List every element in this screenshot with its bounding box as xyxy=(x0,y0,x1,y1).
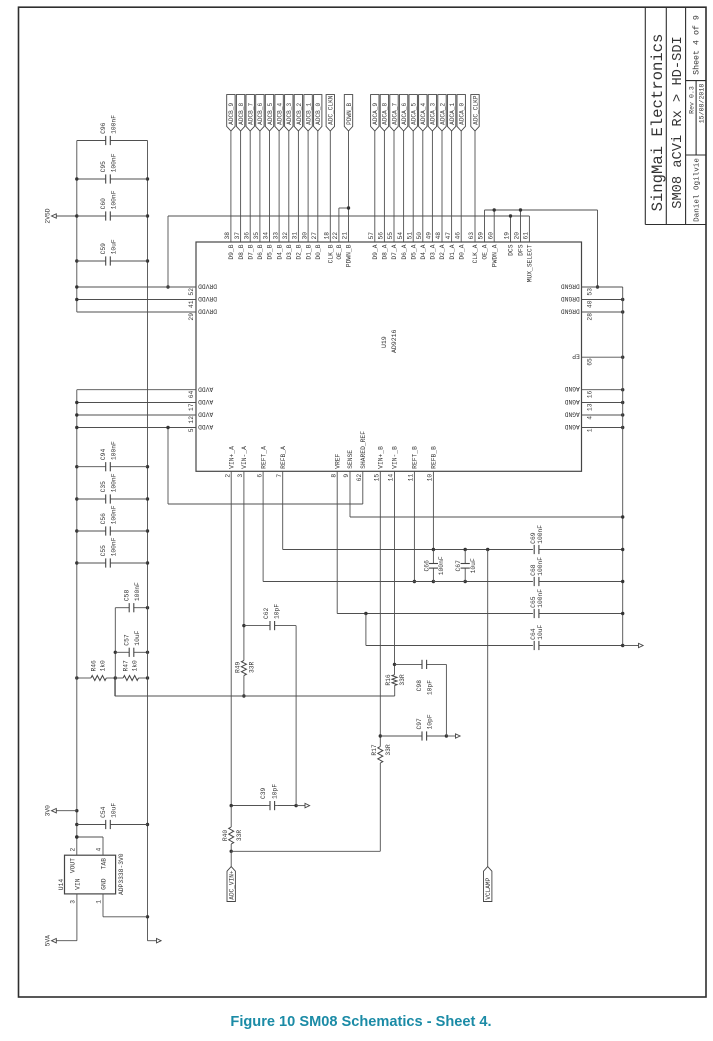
svg-text:Figure 10 SM08 Schematics - Sh: Figure 10 SM08 Schematics - Sheet 4. xyxy=(230,1014,491,1030)
svg-text:ADCA_1: ADCA_1 xyxy=(449,103,456,125)
net flag ADCB_5 xyxy=(265,95,273,131)
svg-text:59: 59 xyxy=(478,232,485,240)
junction C64 rail xyxy=(621,644,624,647)
capacitor C58 100nF xyxy=(115,607,129,609)
svg-text:VIN+_B: VIN+_B xyxy=(378,446,385,469)
svg-text:C94: C94 xyxy=(100,449,107,461)
junction DRVDD 41 xyxy=(75,298,78,301)
wire OE_A group to DRGND xyxy=(485,209,598,211)
junction VREF rail xyxy=(621,612,624,615)
svg-text:13: 13 xyxy=(586,403,593,411)
svg-text:34: 34 xyxy=(263,232,270,240)
svg-text:61: 61 xyxy=(523,232,530,240)
svg-text:ADCB_7: ADCB_7 xyxy=(248,103,255,125)
net flag ADC_CLKP xyxy=(471,95,479,131)
junction AVDD rail xyxy=(75,497,78,500)
net flag ADCB_8 xyxy=(236,95,244,131)
svg-text:ADC_VIN+: ADC_VIN+ xyxy=(229,870,236,900)
net flag PDWN_B xyxy=(344,95,352,131)
net flag ADCB_0 xyxy=(314,95,322,131)
svg-text:15/08/2018: 15/08/2018 xyxy=(699,84,706,124)
pin 40 DRGND xyxy=(582,299,623,301)
pin 61 MUX_SELECT xyxy=(528,216,530,242)
junction ground rail xyxy=(146,823,149,826)
junction AVDD rail xyxy=(75,426,78,429)
junction R49 bias line xyxy=(242,694,245,697)
svg-text:100nF: 100nF xyxy=(111,153,118,172)
pin 12 AVDD xyxy=(77,414,196,416)
svg-text:DRGND: DRGND xyxy=(561,295,580,302)
svg-text:D3_B: D3_B xyxy=(286,244,293,259)
svg-text:22: 22 xyxy=(332,232,339,240)
svg-text:53: 53 xyxy=(586,288,593,296)
junction AVDD rail xyxy=(75,413,78,416)
pin 59 OE_A xyxy=(484,210,486,242)
junction 2V5D rail xyxy=(75,214,78,217)
capacitor C94 100nF xyxy=(77,466,106,468)
svg-text:D6_A: D6_A xyxy=(401,244,408,259)
svg-text:100nF: 100nF xyxy=(111,190,118,209)
pin 47 D1_A xyxy=(451,131,453,242)
svg-text:VIN: VIN xyxy=(75,878,82,890)
pin 3 VIN-_A wire xyxy=(243,471,245,625)
net flag ADCA_3 xyxy=(428,95,436,131)
junction C39 bottom xyxy=(294,804,297,807)
svg-text:R40: R40 xyxy=(222,830,229,842)
svg-text:ADCA_5: ADCA_5 xyxy=(411,103,418,125)
svg-text:14: 14 xyxy=(388,474,395,482)
junction DCS tie xyxy=(509,214,512,217)
svg-text:C39: C39 xyxy=(260,787,267,799)
svg-text:10pF: 10pF xyxy=(427,680,434,695)
net flag ADCB_9 xyxy=(227,95,235,131)
svg-text:SHARED_REF: SHARED_REF xyxy=(360,431,367,469)
svg-text:1: 1 xyxy=(96,900,103,904)
svg-text:ADCB_9: ADCB_9 xyxy=(228,103,235,125)
junction REFB VCLAMP xyxy=(486,548,489,551)
svg-text:D7_B: D7_B xyxy=(247,244,254,259)
wire SHARED_REF to AVDD xyxy=(168,503,363,505)
capacitor C56 100nF xyxy=(77,530,106,532)
svg-text:47: 47 xyxy=(445,232,452,240)
pin 13 AGND xyxy=(582,402,623,404)
junction 2V5D rail C95 xyxy=(75,177,78,180)
svg-text:DCS: DCS xyxy=(508,244,515,256)
svg-text:C64: C64 xyxy=(530,628,537,640)
svg-text:36: 36 xyxy=(243,232,250,240)
pin 14 VIN-_B wire xyxy=(394,471,396,664)
svg-text:65: 65 xyxy=(586,358,593,366)
svg-text:10pF: 10pF xyxy=(272,784,279,799)
net flag ADCA_1 xyxy=(447,95,455,131)
wire C64 branch xyxy=(365,614,367,646)
svg-text:D9_B: D9_B xyxy=(228,244,235,259)
svg-text:10uF: 10uF xyxy=(134,630,141,645)
svg-text:ADCA_8: ADCA_8 xyxy=(382,103,389,125)
svg-text:DFS: DFS xyxy=(518,244,525,256)
pin 2 VIN+_A wire xyxy=(230,471,232,805)
wire SENSE to ground rail xyxy=(350,516,623,518)
svg-text:C35: C35 xyxy=(100,481,107,493)
net flag ADCB_2 xyxy=(294,95,302,131)
svg-text:EP: EP xyxy=(572,353,580,360)
junction DRGND rail xyxy=(621,310,624,313)
svg-text:CLK_A: CLK_A xyxy=(472,244,479,263)
svg-text:100nF: 100nF xyxy=(111,441,118,460)
pin 50 D4_A xyxy=(422,131,424,242)
resistor R47 1k0 xyxy=(123,676,138,681)
capacitor C59 10uF xyxy=(77,260,106,262)
svg-text:C66: C66 xyxy=(423,560,430,572)
pin 9 SENSE wire xyxy=(349,471,351,517)
svg-text:PWDN_A: PWDN_A xyxy=(491,244,498,267)
svg-text:AGND: AGND xyxy=(564,411,579,418)
svg-text:PDWN_B: PDWN_B xyxy=(346,103,353,125)
power symbol 5VA xyxy=(56,940,77,942)
svg-text:ADCB_8: ADCB_8 xyxy=(238,103,245,125)
wire C39 C62 connector xyxy=(295,626,297,806)
svg-text:CLK_B: CLK_B xyxy=(328,244,335,263)
pin 22 OE_B xyxy=(338,208,340,242)
svg-text:100nF: 100nF xyxy=(134,582,141,601)
pin 27 D0_B xyxy=(317,131,319,242)
junction REFT C66 xyxy=(432,580,435,583)
svg-text:41: 41 xyxy=(188,300,195,308)
svg-text:PDWN_B: PDWN_B xyxy=(346,244,353,267)
junction AVDD rail xyxy=(75,529,78,532)
svg-text:35: 35 xyxy=(253,232,260,240)
junction ground rail xyxy=(146,915,149,918)
resistor R46 1k0 xyxy=(77,677,91,679)
wire C39 ground stub xyxy=(296,805,305,807)
junction AVDD rail xyxy=(75,465,78,468)
pin 10 REFB_B wire xyxy=(432,471,434,549)
svg-text:ADP3338-3V0: ADP3338-3V0 xyxy=(118,853,125,895)
pin 60 PWDN_A xyxy=(493,210,495,242)
svg-text:ADCA_2: ADCA_2 xyxy=(439,103,446,125)
net flag ADCB_4 xyxy=(275,95,283,131)
svg-text:10pF: 10pF xyxy=(427,714,434,729)
junction REFB C67 xyxy=(464,548,467,551)
wire AVDD rail xyxy=(76,390,78,837)
net flag ADCB_1 xyxy=(304,95,312,131)
junction C58 ground rail xyxy=(146,606,149,609)
svg-text:Sheet 4 of 9: Sheet 4 of 9 xyxy=(691,15,701,75)
svg-text:OE_B: OE_B xyxy=(336,244,343,259)
capacitor C62 10pF xyxy=(244,625,270,627)
capacitor C39 10pF xyxy=(231,805,270,807)
svg-text:20: 20 xyxy=(514,232,521,240)
svg-text:ADCA_0: ADCA_0 xyxy=(459,103,466,125)
capacitor C65 100nF xyxy=(533,609,539,618)
svg-text:1k0: 1k0 xyxy=(100,660,107,672)
junction AVDD rail xyxy=(75,809,78,812)
svg-text:29: 29 xyxy=(188,313,195,321)
wire divider mid rail xyxy=(114,608,116,696)
svg-text:REFT_B: REFT_B xyxy=(412,446,419,469)
pin 62 SHARED_REF wire xyxy=(362,471,364,504)
junction VREF C64 branch xyxy=(364,612,367,615)
svg-text:MUX_SELECT: MUX_SELECT xyxy=(527,244,534,282)
svg-text:1k0: 1k0 xyxy=(132,660,139,672)
svg-text:R16: R16 xyxy=(385,674,392,686)
svg-text:R47: R47 xyxy=(123,660,130,672)
pin 53 DRGND xyxy=(582,286,623,288)
resistor R49 33R xyxy=(241,660,246,675)
svg-text:ADCB_4: ADCB_4 xyxy=(276,103,283,125)
svg-text:D7_A: D7_A xyxy=(391,244,398,259)
pin 32 D3_B xyxy=(288,131,290,242)
svg-text:C57: C57 xyxy=(124,634,131,646)
svg-text:27: 27 xyxy=(311,232,318,240)
svg-text:D8_B: D8_B xyxy=(238,244,245,259)
svg-text:ADCA_9: ADCA_9 xyxy=(372,103,379,125)
net flag ADCA_7 xyxy=(390,95,398,131)
svg-text:ADCA_6: ADCA_6 xyxy=(401,103,408,125)
net flag ADCA_2 xyxy=(438,95,446,131)
pin 37 D8_B xyxy=(240,131,242,242)
wire ADC_VIN to channel B xyxy=(231,850,380,852)
wire VCLAMP xyxy=(487,550,489,867)
net flag ADCA_8 xyxy=(380,95,388,131)
svg-text:VREF: VREF xyxy=(334,453,341,468)
svg-text:R46: R46 xyxy=(91,660,98,672)
junction C39 top xyxy=(230,804,233,807)
svg-text:15: 15 xyxy=(374,474,381,482)
svg-text:19: 19 xyxy=(504,232,511,240)
wire bias vertical xyxy=(115,695,395,697)
svg-text:ADCB_3: ADCB_3 xyxy=(286,103,293,125)
svg-text:5VA: 5VA xyxy=(45,935,52,947)
pin 2 VOUT wire xyxy=(76,837,78,855)
pin 51 D5_A xyxy=(412,131,414,242)
wire VIN-_A to R49 xyxy=(243,626,245,661)
svg-text:GND: GND xyxy=(101,878,108,890)
junction SENSE rail xyxy=(621,515,624,518)
junction DFS tie xyxy=(519,208,522,211)
svg-text:37: 37 xyxy=(234,232,241,240)
junction C98 top xyxy=(393,663,396,666)
pin 49 D3_A xyxy=(431,131,433,242)
resistor R16 33R on VIN-_B xyxy=(392,675,397,686)
svg-text:10: 10 xyxy=(427,474,434,482)
svg-text:7: 7 xyxy=(276,474,283,478)
svg-text:6: 6 xyxy=(256,474,263,478)
junction VOUT rail xyxy=(75,835,78,838)
wire VREF column xyxy=(337,613,623,615)
svg-text:D4_B: D4_B xyxy=(276,244,283,259)
pin 55 D7_A xyxy=(393,131,395,242)
junction ground rail xyxy=(146,497,149,500)
pin 33 D4_B xyxy=(278,131,280,242)
pin 11 REFT_B wire xyxy=(413,471,415,581)
power symbol 2V5D xyxy=(56,215,77,217)
svg-text:ADCB_5: ADCB_5 xyxy=(267,103,274,125)
net flag ADCA_0 xyxy=(457,95,465,131)
junction ground rail xyxy=(146,259,149,262)
capacitor C96 100nF xyxy=(77,140,106,142)
svg-text:C58: C58 xyxy=(124,590,131,602)
ground symbol below C39 xyxy=(305,803,310,807)
wire VIN-_B from bias xyxy=(394,686,396,697)
svg-text:R17: R17 xyxy=(371,744,378,756)
svg-text:REFB_B: REFB_B xyxy=(431,446,438,469)
svg-text:VIN-_B: VIN-_B xyxy=(392,446,399,469)
pin 8 VREF wire xyxy=(336,471,338,613)
net flag ADCB_7 xyxy=(246,95,254,131)
svg-text:10uF: 10uF xyxy=(470,558,477,573)
wire REFB column xyxy=(283,549,623,551)
svg-text:21: 21 xyxy=(342,232,349,240)
wire C97 ground stub xyxy=(446,735,455,737)
svg-text:DRGND: DRGND xyxy=(561,283,580,290)
svg-text:C68: C68 xyxy=(530,564,537,576)
resistor R17 33R on VIN+_B xyxy=(378,747,383,764)
wire OE_B to PDWN_B xyxy=(339,207,349,209)
junction C59 rail xyxy=(75,259,78,262)
svg-text:31: 31 xyxy=(292,232,299,240)
wire VOUT TAB join xyxy=(77,836,103,838)
pin 57 D9_A xyxy=(374,131,376,242)
capacitor C60 100nF xyxy=(77,215,106,217)
capacitor C68 100nF xyxy=(533,577,539,586)
junction AVDD rail xyxy=(75,401,78,404)
capacitor C95 100nF xyxy=(77,178,106,180)
svg-text:AVDD: AVDD xyxy=(198,385,213,392)
svg-text:REFB_A: REFB_A xyxy=(280,446,287,469)
svg-text:VCLAMP: VCLAMP xyxy=(485,877,492,899)
svg-text:VOUT: VOUT xyxy=(70,858,77,873)
svg-text:38: 38 xyxy=(224,232,231,240)
junction REFB rail xyxy=(621,548,624,551)
svg-text:57: 57 xyxy=(368,232,375,240)
capacitor C67 10uF xyxy=(433,581,465,583)
pin 5 AVDD xyxy=(77,427,196,429)
svg-text:100nF: 100nF xyxy=(537,557,544,576)
svg-text:ADCA_4: ADCA_4 xyxy=(420,103,427,125)
svg-text:100nF: 100nF xyxy=(111,115,118,134)
net flag ADCB_6 xyxy=(256,95,264,131)
svg-text:100nF: 100nF xyxy=(111,505,118,524)
pin 35 D6_B xyxy=(259,131,261,242)
capacitor C69 100nF xyxy=(533,545,539,554)
svg-text:ADCB_0: ADCB_0 xyxy=(315,103,322,125)
capacitor C66 100nF xyxy=(432,568,434,581)
pin 48 D2_A xyxy=(441,131,443,242)
wire ground rail left xyxy=(147,141,149,941)
svg-text:100nF: 100nF xyxy=(537,589,544,608)
pin 21 PDWN_B xyxy=(348,131,350,242)
wire bias to divider xyxy=(114,678,116,696)
svg-text:ADCA_7: ADCA_7 xyxy=(391,103,398,125)
svg-text:C62: C62 xyxy=(263,607,270,619)
net flag VCLAMP xyxy=(484,867,492,902)
ground symbol left rail xyxy=(148,940,157,942)
svg-text:55: 55 xyxy=(387,232,394,240)
svg-text:D1_B: D1_B xyxy=(305,244,312,259)
capacitor C64 10uF xyxy=(533,641,539,650)
svg-text:48: 48 xyxy=(435,232,442,240)
svg-text:52: 52 xyxy=(188,288,195,296)
junction R49 C62 xyxy=(242,624,245,627)
svg-text:D0_B: D0_B xyxy=(315,244,322,259)
svg-text:ADCA_3: ADCA_3 xyxy=(430,103,437,125)
svg-text:5: 5 xyxy=(188,428,195,432)
capacitor C35 100nF xyxy=(77,498,106,500)
svg-text:D0_A: D0_A xyxy=(458,244,465,259)
svg-text:D1_A: D1_A xyxy=(449,244,456,259)
svg-text:8: 8 xyxy=(330,474,337,478)
pin 56 D8_A xyxy=(383,131,385,242)
svg-text:10uF: 10uF xyxy=(537,624,544,639)
pin 4 AGND xyxy=(582,414,623,416)
svg-text:17: 17 xyxy=(188,403,195,411)
pin 1 GND wire xyxy=(102,894,104,917)
junction AVDD rail xyxy=(75,823,78,826)
svg-text:9: 9 xyxy=(343,474,350,478)
svg-text:REFT_A: REFT_A xyxy=(260,446,267,469)
svg-text:D8_A: D8_A xyxy=(382,244,389,259)
pin 31 D2_B xyxy=(297,131,299,242)
svg-text:50: 50 xyxy=(416,232,423,240)
svg-text:51: 51 xyxy=(406,232,413,240)
junction ground rail xyxy=(146,529,149,532)
svg-text:60: 60 xyxy=(487,232,494,240)
svg-text:R49: R49 xyxy=(235,661,242,673)
svg-text:C56: C56 xyxy=(100,513,107,525)
pin 34 D5_B xyxy=(269,131,271,242)
capacitor C54 10uF xyxy=(77,824,106,826)
net flag ADCA_4 xyxy=(419,95,427,131)
pin 29 DRVDD xyxy=(77,311,196,313)
wire DCS MUX_SELECT to DRVDD xyxy=(168,215,529,217)
junction SHARED_REF AVDD pin5 xyxy=(166,426,169,429)
svg-text:C55: C55 xyxy=(100,545,107,557)
svg-text:VIN+_A: VIN+_A xyxy=(228,446,235,469)
svg-text:32: 32 xyxy=(282,232,289,240)
pin 28 DRGND xyxy=(582,311,623,313)
junction DRVDD tie at pin 52 wire xyxy=(166,285,169,288)
svg-text:ADC_CLKN: ADC_CLKN xyxy=(328,95,335,125)
svg-text:Daniel Ogilvie: Daniel Ogilvie xyxy=(693,158,701,222)
ground arrow at rail end xyxy=(623,645,639,647)
junction C97 C98 node xyxy=(445,734,448,737)
svg-text:D2_B: D2_B xyxy=(296,244,303,259)
svg-text:C65: C65 xyxy=(530,596,537,608)
svg-text:D5_B: D5_B xyxy=(267,244,274,259)
wire VIN+_A column xyxy=(231,805,266,807)
wire 2V5D rail xyxy=(76,141,78,313)
svg-text:C69: C69 xyxy=(530,532,537,544)
ground symbol below C97 xyxy=(456,734,461,738)
svg-text:C95: C95 xyxy=(100,161,107,173)
svg-text:16: 16 xyxy=(586,390,593,398)
svg-text:DRVDD: DRVDD xyxy=(198,308,217,315)
wire REFT column xyxy=(263,581,623,583)
junction REFT_B xyxy=(413,580,416,583)
junction PWDN_A tie xyxy=(493,208,496,211)
svg-text:11: 11 xyxy=(408,474,415,482)
junction C97 top xyxy=(379,734,382,737)
net flag ADCA_6 xyxy=(399,95,407,131)
junction REFB C66 xyxy=(432,548,435,551)
svg-text:VIN-_A: VIN-_A xyxy=(241,446,248,469)
svg-text:C54: C54 xyxy=(100,806,107,818)
svg-text:D3_A: D3_A xyxy=(430,244,437,259)
junction PDWN_B branch xyxy=(347,206,350,209)
svg-text:DRVDD: DRVDD xyxy=(198,283,217,290)
svg-text:30: 30 xyxy=(301,232,308,240)
